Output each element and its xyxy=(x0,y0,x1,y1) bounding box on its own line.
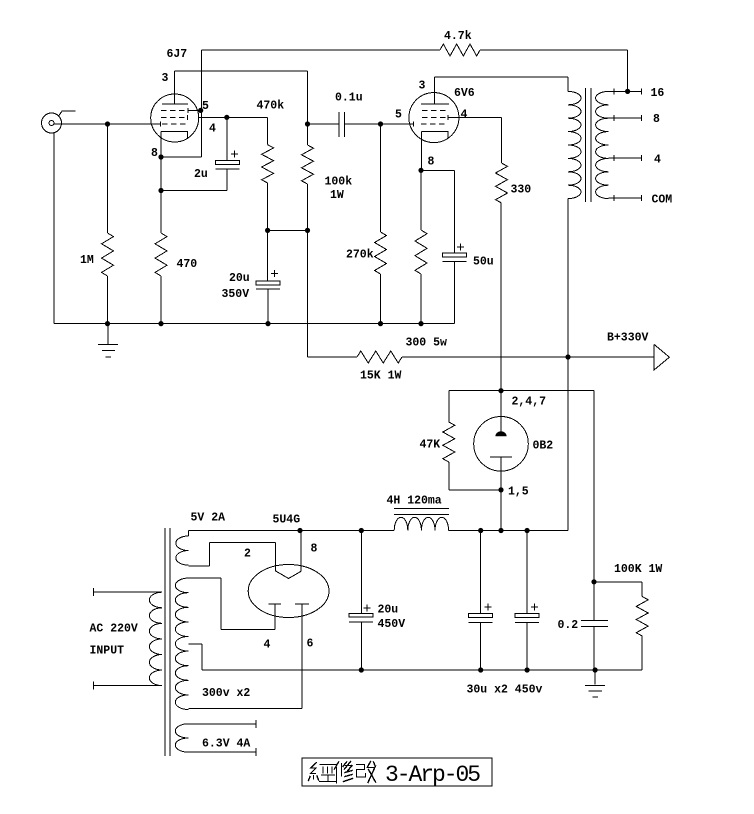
resistor 270k xyxy=(346,124,387,326)
svg-text:15K 1W: 15K 1W xyxy=(360,370,402,383)
svg-text:0.1u: 0.1u xyxy=(335,92,363,105)
svg-text:16: 16 xyxy=(651,87,665,100)
capacitor 20u 450V xyxy=(349,531,405,671)
choke 4H 120ma L1 xyxy=(387,495,449,531)
svg-text:470: 470 xyxy=(177,258,198,271)
transformer OPT secondary winding xyxy=(596,91,609,198)
svg-text:3-Arp-05: 3-Arp-05 xyxy=(385,762,480,788)
wire 5U4G pin8 filament to rail xyxy=(300,531,302,572)
B+330V arrow terminal xyxy=(607,332,669,370)
wire cathode down xyxy=(158,157,163,233)
svg-text:4.7k: 4.7k xyxy=(444,30,472,43)
OPT tap 16 xyxy=(609,87,665,100)
svg-text:6.3V 4A: 6.3V 4A xyxy=(202,738,250,751)
svg-text:8: 8 xyxy=(311,543,318,556)
resistor 470 xyxy=(155,233,197,326)
svg-text:4: 4 xyxy=(654,154,661,167)
svg-text:450V: 450V xyxy=(378,618,406,631)
input jack J1 xyxy=(42,111,76,133)
wire jack sleeve to ground rail xyxy=(53,133,55,324)
capacitor 30u (first) xyxy=(469,531,493,671)
svg-text:4: 4 xyxy=(461,109,468,122)
resistor 300 5w xyxy=(406,170,448,349)
svg-text:3: 3 xyxy=(419,80,426,93)
svg-text:5: 5 xyxy=(395,109,402,122)
svg-text:270k: 270k xyxy=(346,249,374,262)
svg-text:INPUT: INPUT xyxy=(90,645,125,658)
capacitor 30u (second) xyxy=(467,531,543,697)
wire pin5-feedback vertical xyxy=(198,50,203,157)
svg-text:0.2: 0.2 xyxy=(558,619,579,632)
wire 0B2 anode column xyxy=(498,388,546,533)
wire feedback top line xyxy=(202,50,628,91)
wire node B junction row xyxy=(268,230,308,357)
wire B+ to choke rail xyxy=(567,357,569,531)
svg-text:8: 8 xyxy=(151,147,158,160)
svg-text:6: 6 xyxy=(307,638,314,651)
svg-text:B+330V: B+330V xyxy=(607,332,649,345)
wire input signal line xyxy=(54,123,160,125)
capacitor 50u xyxy=(442,243,494,323)
svg-text:6V6: 6V6 xyxy=(454,87,475,100)
svg-text:100K 1W: 100K 1W xyxy=(614,563,662,576)
resistor 470k xyxy=(257,100,285,233)
capacitor 0.2 xyxy=(558,619,609,632)
title box xyxy=(302,758,492,786)
wire 5U4G pin6 plate to HV bottom xyxy=(188,604,302,708)
node 1M junction xyxy=(105,121,110,126)
PT HV center tap to ground rail xyxy=(188,644,202,670)
svg-text:350V: 350V xyxy=(222,288,250,301)
svg-text:1W: 1W xyxy=(330,189,344,202)
tube 6V6 V2 xyxy=(395,80,475,171)
wire 6J7 plate to node A xyxy=(175,71,310,127)
resistor 15K 1W xyxy=(357,351,402,383)
wire 6V6 cathode xyxy=(418,132,454,254)
svg-text:470k: 470k xyxy=(257,100,285,113)
PT 6.3V winding xyxy=(175,720,256,756)
transformer PT primary winding xyxy=(149,592,162,685)
resistor 1M xyxy=(80,124,114,326)
transformer OPT primary winding xyxy=(568,91,581,357)
svg-text:1M: 1M xyxy=(80,254,94,267)
wire B+ line left xyxy=(308,356,358,358)
resistor 330 xyxy=(496,163,532,203)
wire pin8 cathode link xyxy=(158,154,201,159)
wire 5U4G pin4 plate to HV top xyxy=(188,578,275,629)
resistor 100k 1W xyxy=(302,124,353,233)
ground symbol (input stage) xyxy=(98,324,118,357)
svg-text:8: 8 xyxy=(428,156,435,169)
svg-text:4: 4 xyxy=(264,639,271,652)
capacitor 20u 350V xyxy=(222,230,281,326)
ground rail (power supply) xyxy=(202,667,642,672)
capacitor 0.1u xyxy=(335,92,363,138)
svg-text:30u x2 450v: 30u x2 450v xyxy=(467,684,543,697)
svg-text:20u: 20u xyxy=(378,604,399,617)
wire B+ rail (choke level) xyxy=(188,528,568,533)
wire B+ line right xyxy=(402,354,654,359)
svg-text:2: 2 xyxy=(244,548,251,561)
svg-text:47K: 47K xyxy=(420,439,441,452)
svg-text:8: 8 xyxy=(653,113,660,126)
svg-text:300 5w: 300 5w xyxy=(406,337,448,350)
OPT tap 4 xyxy=(609,154,661,167)
svg-text:AC 220V: AC 220V xyxy=(90,623,138,636)
PT primary leads AC input xyxy=(90,588,162,689)
wire 0B2 node to bleeder column xyxy=(501,391,597,670)
capacitor 2u xyxy=(161,115,240,191)
svg-text:COM: COM xyxy=(652,194,673,207)
svg-text:5V 2A: 5V 2A xyxy=(191,512,226,525)
tube 5U4G V3 xyxy=(244,514,329,652)
svg-text:2u: 2u xyxy=(194,168,208,181)
svg-text:50u: 50u xyxy=(473,256,494,269)
title text glyph Gai (6539) xyxy=(357,762,376,783)
OPT tap 8 xyxy=(609,113,660,126)
svg-text:300v x2: 300v x2 xyxy=(202,687,250,700)
svg-text:100k: 100k xyxy=(325,176,353,189)
resistor 47K xyxy=(420,391,502,490)
svg-text:3: 3 xyxy=(162,72,169,85)
svg-text:4H 120ma: 4H 120ma xyxy=(387,495,442,508)
svg-text:2,4,7: 2,4,7 xyxy=(512,396,547,409)
svg-text:20u: 20u xyxy=(229,272,250,285)
title text glyph Jing (E7D3) xyxy=(309,763,337,782)
wire coupling cap to 6V6 grid xyxy=(345,121,413,126)
resistor 4.7k xyxy=(440,30,480,56)
wire node A to coupling cap xyxy=(308,123,340,125)
wire 5U4G pin2 filament to 5V winding xyxy=(188,542,275,570)
tube 6J7 V1 xyxy=(151,48,216,160)
svg-text:330: 330 xyxy=(511,184,532,197)
tube 0B2 V4 xyxy=(474,417,554,472)
resistor 100K 1W xyxy=(594,563,662,670)
title text 3-Arp-05 xyxy=(385,762,480,788)
PT HV winding 300v x2 xyxy=(175,578,250,709)
svg-text:5U4G: 5U4G xyxy=(273,514,301,527)
PT 5V winding xyxy=(176,512,225,566)
ground symbol (power supply) xyxy=(585,670,605,697)
transformer PT core xyxy=(165,528,170,756)
svg-text:0B2: 0B2 xyxy=(533,440,554,453)
wire 330 to 0B2 node xyxy=(500,203,502,391)
svg-text:1,5: 1,5 xyxy=(508,486,529,499)
wire 6J7 screen to 470k xyxy=(198,117,268,144)
OPT tap COM xyxy=(609,194,673,207)
svg-text:4: 4 xyxy=(209,123,216,136)
wire 6V6 screen xyxy=(449,117,502,163)
svg-text:6J7: 6J7 xyxy=(167,48,188,61)
ground rail (upper section) xyxy=(54,323,454,325)
wire 6V6 plate to OPT primary xyxy=(434,77,568,104)
transformer OPT core xyxy=(586,88,592,202)
title text glyph Xiu (4FEE) xyxy=(335,762,353,784)
